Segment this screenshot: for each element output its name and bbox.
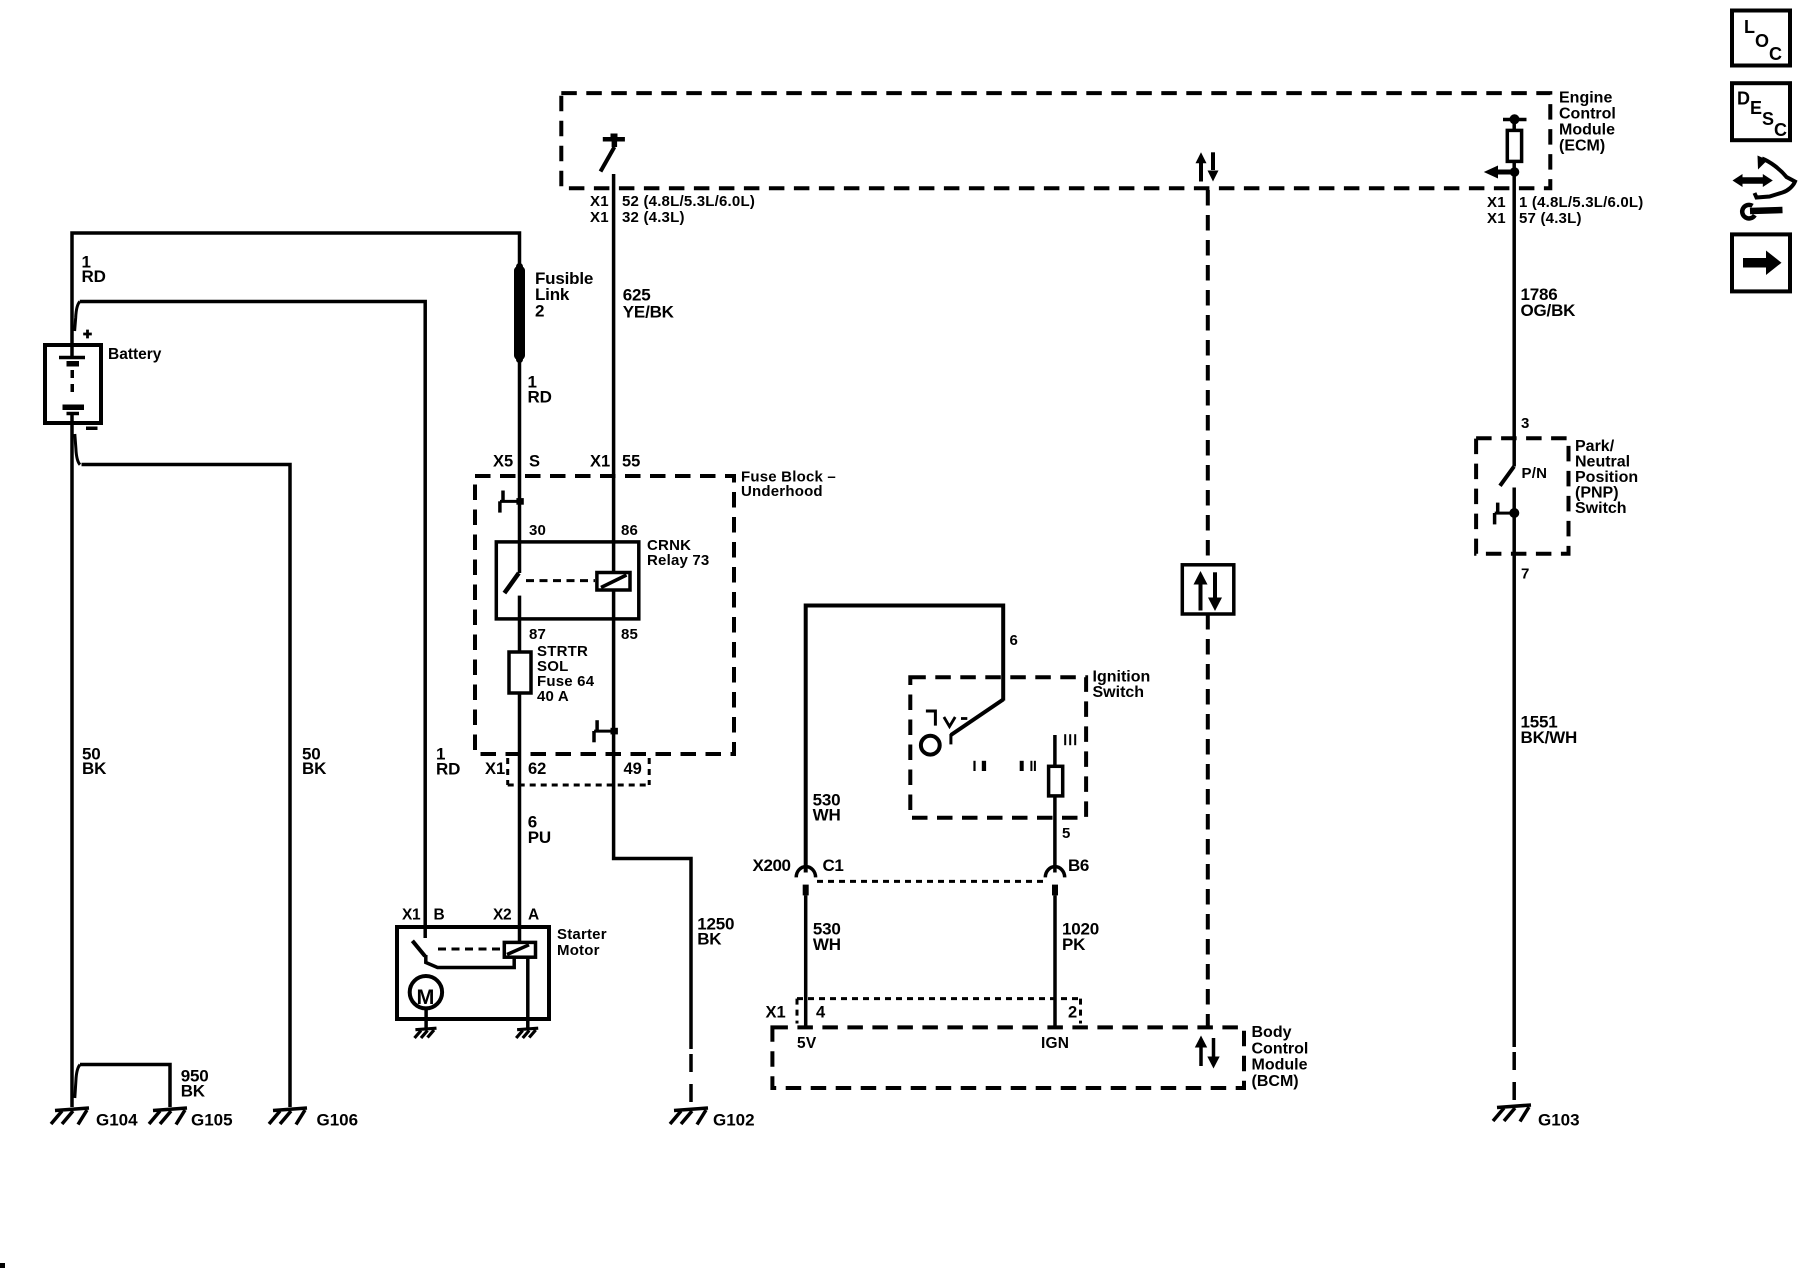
svg-text:40 A: 40 A <box>537 688 569 705</box>
ignition switch dashed box <box>910 677 1086 818</box>
svg-text:BK: BK <box>181 1081 206 1100</box>
wire ECM terminal 52/32 to relay 86 (625 YE/BK) <box>612 174 616 573</box>
svg-text:G106: G106 <box>317 1111 359 1130</box>
wire to ground G105 (950 BK) <box>80 1065 170 1108</box>
svg-text:X1: X1 <box>1487 210 1506 227</box>
wire battery negative to ground G106 (50 BK) <box>82 465 291 1108</box>
starter solenoid actuation dashed line <box>438 948 503 951</box>
svg-text:X1: X1 <box>485 760 505 778</box>
serial data dashed line gateway to BCM <box>1206 614 1210 1027</box>
svg-text:2: 2 <box>535 301 544 320</box>
connector X1 62/49 dotted box <box>508 758 650 785</box>
svg-text:E: E <box>1750 98 1762 118</box>
wire BCM 5V to ignition switch terminal 6 (530 WH) <box>806 606 1004 873</box>
svg-text:1 (4.8L/5.3L/6.0L): 1 (4.8L/5.3L/6.0L) <box>1519 194 1643 211</box>
starter motor M circle <box>410 976 442 1008</box>
wire tap curve near ground G104 <box>75 1065 80 1098</box>
svg-text:X1: X1 <box>590 209 609 226</box>
svg-text:G102: G102 <box>713 1111 755 1130</box>
svg-text:X2: X2 <box>493 907 511 924</box>
svg-text:3: 3 <box>1521 415 1530 432</box>
svg-text:Ignition: Ignition <box>1093 668 1151 685</box>
svg-text:YE/BK: YE/BK <box>623 302 675 321</box>
ECM internal PNP sense circuit <box>1484 114 1527 190</box>
svg-text:4: 4 <box>816 1004 826 1022</box>
ground starter solenoid <box>516 1028 538 1038</box>
svg-text:Control: Control <box>1559 106 1616 123</box>
wire ECM terminal 1/57 to PNP switch (1786 OG/BK) <box>1512 190 1516 467</box>
svg-text:BK: BK <box>302 759 327 778</box>
wire battery positive to starter B terminal (1 RD) <box>80 302 425 928</box>
svg-text:(PNP): (PNP) <box>1575 485 1619 502</box>
battery minus sign <box>86 427 98 431</box>
starter B wire stub inside box <box>423 927 427 938</box>
svg-text:RD: RD <box>436 759 460 778</box>
serial data gateway box with arrows <box>1182 565 1234 614</box>
splice S2 in fuse block <box>594 720 618 742</box>
svg-text:Switch: Switch <box>1575 500 1627 517</box>
svg-text:C: C <box>1769 44 1782 64</box>
svg-text:G104: G104 <box>96 1111 138 1130</box>
svg-text:Switch: Switch <box>1093 684 1145 701</box>
svg-text:Position: Position <box>1575 469 1638 486</box>
svg-text:Park/: Park/ <box>1575 438 1615 455</box>
svg-text:BK/WH: BK/WH <box>1521 728 1578 747</box>
BCM serial data arrows <box>1195 1036 1220 1069</box>
ignition position ticks III <box>1064 734 1076 745</box>
svg-text:X1: X1 <box>1487 194 1506 211</box>
svg-text:M: M <box>417 985 435 1009</box>
wire relay 85 to ground G102 (1250 BK) <box>614 590 691 1049</box>
svg-text:62: 62 <box>528 760 546 778</box>
svg-text:P/N: P/N <box>1522 465 1548 482</box>
wire solenoid to starter ground <box>526 957 530 1029</box>
svg-text:BK: BK <box>82 759 107 778</box>
ECM serial data arrows (small) <box>1196 152 1219 181</box>
svg-text:RD: RD <box>82 267 106 286</box>
svg-text:Motor: Motor <box>557 942 600 959</box>
battery plus sign <box>83 330 92 339</box>
svg-text:30: 30 <box>529 522 546 539</box>
connector X200 dotted line <box>817 880 1044 883</box>
svg-text:RD: RD <box>528 387 552 406</box>
ground G106 <box>269 1108 307 1125</box>
svg-text:(BCM): (BCM) <box>1252 1073 1299 1090</box>
svg-text:Body: Body <box>1252 1024 1292 1041</box>
battery B1 <box>45 345 101 423</box>
starter switch arm <box>412 941 425 956</box>
svg-text:5: 5 <box>1062 825 1071 842</box>
svg-text:Module: Module <box>1559 122 1615 139</box>
ignition position ticks I <box>973 761 986 771</box>
svg-text:PU: PU <box>528 828 551 847</box>
svg-text:32 (4.3L): 32 (4.3L) <box>622 209 685 226</box>
starter solenoid coil <box>504 942 535 957</box>
wire fusible link to relay 30 (1 RD) <box>518 358 522 573</box>
svg-text:BK: BK <box>697 930 722 949</box>
svg-text:Underhood: Underhood <box>741 483 823 500</box>
relay CRNK Relay 73 box <box>496 542 639 619</box>
svg-text:IGN: IGN <box>1041 1035 1069 1052</box>
svg-text:B6: B6 <box>1068 856 1089 875</box>
ground G103 <box>1493 1105 1531 1122</box>
ground G102 <box>670 1108 708 1125</box>
svg-text:L: L <box>1744 17 1755 37</box>
svg-text:57 (4.3L): 57 (4.3L) <box>1519 210 1582 227</box>
svg-text:B: B <box>434 907 445 924</box>
wire X200 B6 to BCM X1-2 (1020 PK) <box>1053 895 1057 1027</box>
connector X1 BCM dotted box <box>797 999 1081 1024</box>
wire PNP terminal 7 to ground G103 (1551 BK/WH) <box>1512 513 1516 1047</box>
svg-text:X1: X1 <box>766 1004 786 1022</box>
wire motor to starter ground <box>424 1008 428 1029</box>
relay actuation dashed line <box>526 579 595 582</box>
svg-text:O: O <box>1755 31 1769 51</box>
svg-text:Relay 73: Relay 73 <box>647 552 709 569</box>
connector X200 C1 terminal <box>796 867 815 896</box>
PNP splice contact <box>1495 488 1520 525</box>
svg-text:WH: WH <box>813 935 841 954</box>
ignition key position mark <box>926 711 967 727</box>
svg-text:S: S <box>1762 109 1774 129</box>
svg-text:7: 7 <box>1521 566 1530 583</box>
ECM dashed box <box>561 93 1550 188</box>
icon double arrow with part outline and wrench <box>1733 156 1796 219</box>
connector X200 B6 terminal <box>1045 867 1064 896</box>
svg-text:85: 85 <box>621 626 638 643</box>
wire tap curve at battery positive <box>75 302 80 332</box>
ground G105 <box>149 1108 187 1125</box>
starter motor box <box>397 927 549 1019</box>
svg-text:A: A <box>528 907 539 924</box>
icon LOC box <box>1732 11 1790 66</box>
svg-text:X1: X1 <box>402 907 421 924</box>
wire tap curve at battery negative <box>75 434 80 465</box>
wire ignition terminal 5 to X200 B6 <box>1053 796 1057 873</box>
svg-text:PK: PK <box>1062 935 1086 954</box>
relay switch arm <box>504 573 518 593</box>
splice S1 in fuse block <box>500 491 524 513</box>
svg-text:X200: X200 <box>753 856 791 875</box>
svg-text:WH: WH <box>813 806 841 825</box>
svg-text:OG/BK: OG/BK <box>1521 301 1577 320</box>
svg-text:C1: C1 <box>823 856 844 875</box>
wire relay 87 to STRTR SOL fuse <box>518 596 522 652</box>
wire X200 C1 to BCM X1-4 (530 WH) <box>804 895 808 1027</box>
ignition switch start contact wire <box>1053 735 1057 766</box>
ignition switch resistor element <box>1049 766 1063 796</box>
svg-text:X1: X1 <box>590 452 610 470</box>
svg-text:X1: X1 <box>590 193 609 210</box>
svg-text:C: C <box>1774 120 1787 140</box>
ignition position ticks II <box>1020 761 1036 771</box>
svg-text:(ECM): (ECM) <box>1559 138 1605 155</box>
svg-text:52 (4.8L/5.3L/6.0L): 52 (4.8L/5.3L/6.0L) <box>622 193 755 210</box>
svg-text:Engine: Engine <box>1559 90 1612 107</box>
ground G104 <box>51 1108 89 1125</box>
svg-text:Battery: Battery <box>108 346 162 363</box>
page corner mark <box>0 1263 5 1268</box>
svg-text:5V: 5V <box>797 1035 817 1052</box>
fuse block underhood dashed box <box>475 476 734 754</box>
svg-text:Control: Control <box>1252 1040 1309 1057</box>
icon DESC box <box>1732 83 1790 140</box>
wire battery positive to fusible link (1 RD) <box>72 233 520 356</box>
svg-text:49: 49 <box>624 760 642 778</box>
PNP switch arm <box>1500 467 1514 486</box>
fusible link 2 <box>514 263 525 363</box>
svg-text:G103: G103 <box>1538 1111 1580 1130</box>
svg-text:2: 2 <box>1068 1004 1077 1022</box>
ignition switch arm <box>951 700 1003 745</box>
fuse STRTR SOL Fuse 64 40 A <box>509 652 531 693</box>
svg-text:Module: Module <box>1252 1057 1308 1074</box>
relay coil <box>597 573 630 591</box>
svg-text:6: 6 <box>1010 632 1019 649</box>
svg-text:55: 55 <box>622 452 640 470</box>
dashed wire segment to G103 <box>1512 1052 1516 1102</box>
ECM internal driver switch (CRNK relay control) <box>601 134 625 172</box>
dashed wire segment to G102 <box>689 1054 693 1104</box>
wire battery negative to ground G104 (50 BK) <box>70 414 74 1107</box>
BCM dashed box <box>772 1027 1244 1088</box>
svg-text:G105: G105 <box>191 1111 233 1130</box>
ignition switch pivot circle <box>921 736 940 755</box>
ground starter motor case <box>415 1028 437 1038</box>
svg-text:X5: X5 <box>493 452 513 470</box>
PNP switch dashed box <box>1476 438 1568 554</box>
serial data dashed line ECM to gateway box <box>1206 190 1210 565</box>
icon right arrow box <box>1732 234 1790 291</box>
wire fuse to starter A terminal (6 PU) <box>518 693 522 942</box>
svg-text:Starter: Starter <box>557 926 607 943</box>
svg-text:87: 87 <box>529 626 546 643</box>
svg-text:S: S <box>529 452 540 470</box>
starter switch contact stub <box>426 955 514 968</box>
svg-text:Neutral: Neutral <box>1575 454 1630 471</box>
svg-text:86: 86 <box>621 522 638 539</box>
svg-text:D: D <box>1737 89 1750 109</box>
